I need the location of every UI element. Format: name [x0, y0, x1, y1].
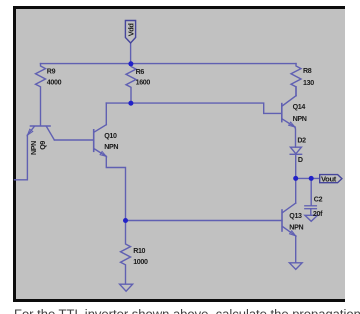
svg-text:NPN: NPN — [293, 115, 307, 123]
resistor R10 — [121, 221, 131, 284]
transistor Q14 — [281, 104, 283, 122]
resistor R8 — [291, 64, 301, 96]
wire D2 to output node — [295, 154, 297, 178]
wire output node to Vout flag — [296, 177, 320, 179]
svg-text:Vout: Vout — [321, 174, 337, 183]
ground below C2 — [305, 215, 318, 221]
junction node C2 top — [309, 176, 314, 181]
svg-text:R9: R9 — [47, 68, 56, 76]
resistor R9 — [36, 64, 46, 126]
transistor Q9 — [31, 125, 51, 127]
ground below R10 — [120, 284, 133, 291]
wire Q10 emitter down — [106, 156, 125, 220]
svg-text:NPN: NPN — [104, 143, 118, 151]
junction node output — [293, 176, 298, 181]
wire Q10 collector up — [105, 103, 107, 125]
capacitor C2 — [305, 205, 317, 207]
wire Vdd stem — [130, 43, 132, 64]
svg-text:Q9: Q9 — [39, 141, 47, 150]
wire R8 to Q14 collector — [295, 87, 297, 96]
wire Q13 collector up — [295, 178, 297, 203]
diode D2 — [290, 147, 301, 154]
wire Q13 emitter down — [295, 236, 297, 263]
wire phase splitter to Q13 base — [126, 220, 282, 222]
wire top rail Vdd — [41, 63, 297, 65]
junction node R6/Q10/Q14 — [128, 101, 133, 106]
junction node R10/Q13 base — [123, 218, 128, 223]
svg-text:R10: R10 — [133, 247, 145, 255]
svg-text:D2: D2 — [297, 137, 306, 145]
wire Q14 emitter to D2 — [294, 127, 297, 147]
svg-text:20f: 20f — [313, 210, 323, 218]
svg-text:For the TTL inverter shown abo: For the TTL inverter shown above, calcul… — [14, 307, 360, 314]
svg-text:NPN: NPN — [289, 223, 303, 231]
svg-text:NPN: NPN — [30, 141, 38, 155]
svg-text:4000: 4000 — [47, 79, 62, 87]
svg-text:R8: R8 — [303, 67, 312, 75]
svg-text:Vdd: Vdd — [126, 24, 135, 37]
border frame — [13, 6, 16, 302]
transistor Q10 — [93, 130, 95, 152]
svg-text:1600: 1600 — [136, 79, 151, 87]
svg-text:Q10: Q10 — [104, 132, 117, 140]
svg-text:Q14: Q14 — [293, 103, 306, 111]
svg-text:D: D — [298, 156, 303, 164]
wire mid rail — [106, 103, 281, 113]
resistor R6 — [126, 64, 136, 102]
svg-text:1000: 1000 — [133, 258, 148, 266]
ground below Q13 — [289, 263, 302, 270]
flag Vdd — [125, 21, 135, 44]
svg-text:130: 130 — [303, 79, 314, 87]
wire output node down to C2 — [310, 178, 312, 205]
svg-text:C2: C2 — [314, 196, 323, 204]
svg-text:R6: R6 — [136, 68, 145, 76]
wire Q9 emitter to input — [15, 135, 28, 180]
flag Vout — [320, 175, 342, 183]
wire Q9 collector to Q10 base — [54, 139, 93, 141]
svg-text:Q13: Q13 — [289, 212, 302, 220]
transistor Q13 — [281, 210, 283, 231]
junction node Vdd rail — [128, 61, 133, 66]
